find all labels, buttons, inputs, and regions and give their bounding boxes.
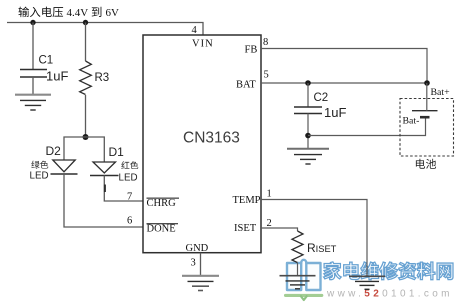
svg-text:8: 8	[263, 37, 268, 48]
svg-text:1: 1	[267, 188, 272, 199]
watermark: green base ribbon	[286, 294, 322, 297]
node: battery + junction	[424, 80, 430, 86]
wire: C1 top	[32, 23, 34, 70]
wire: D2 cathode to DONE	[64, 174, 143, 227]
svg-text:6: 6	[127, 216, 132, 227]
svg-text:LED: LED	[119, 173, 138, 184]
svg-text:5: 5	[264, 70, 269, 81]
net label: input voltage 4.4V to 6V	[18, 7, 119, 19]
svg-text:BAT: BAT	[236, 80, 256, 91]
wire: C2 bottom	[307, 114, 309, 149]
wire: C2 top	[307, 83, 309, 107]
wire: R3 top	[85, 23, 87, 62]
node: LED rail junction	[83, 134, 89, 140]
svg-text:1uF: 1uF	[324, 105, 346, 120]
resistor RISET	[292, 231, 337, 263]
wire: battery - return	[308, 118, 426, 136]
wire: LED top rail	[64, 137, 104, 162]
resistor R3	[80, 61, 110, 95]
svg-text:LED: LED	[30, 171, 49, 182]
svg-text:1uF: 1uF	[46, 69, 68, 84]
watermark: site name 家电维修资料网	[324, 262, 453, 280]
svg-text:DONE: DONE	[147, 224, 176, 235]
svg-text:TEMP: TEMP	[233, 195, 261, 206]
pin 5 BAT	[236, 70, 269, 91]
svg-text:RISET: RISET	[307, 241, 337, 255]
pin 3 GND	[186, 243, 209, 269]
svg-text:R3: R3	[95, 72, 110, 84]
LED D2 (green)	[30, 144, 78, 182]
node: C1 junction	[30, 20, 35, 25]
wire: D1 cathode to CHRG	[104, 176, 143, 202]
wire: FB to battery +	[261, 49, 427, 84]
IC U1 CN3163 body	[143, 35, 261, 253]
ground: under C1	[15, 95, 51, 110]
svg-text:C1: C1	[39, 55, 54, 67]
wire: input rail to pin 4	[7, 23, 203, 36]
svg-text:GND: GND	[186, 243, 209, 254]
svg-text:D1: D1	[109, 145, 125, 159]
node: C2/battery - junction	[305, 133, 311, 139]
pin 4 VIN	[192, 25, 214, 50]
pin 2 ISET	[234, 218, 272, 234]
svg-text:VIN: VIN	[192, 39, 214, 50]
svg-text:D2: D2	[46, 144, 62, 158]
wire: RISET to ground	[297, 263, 299, 276]
battery BT1: pack outline	[400, 99, 454, 169]
battery cell symbol	[412, 83, 438, 117]
svg-text:CHRG: CHRG	[147, 198, 177, 209]
ground: under IC GND	[182, 276, 219, 291]
pin 6 DONE	[127, 216, 178, 235]
ground: under RISET	[280, 276, 316, 289]
capacitor C1	[20, 55, 68, 84]
svg-text:7: 7	[127, 192, 132, 203]
ground: under C2	[287, 149, 329, 164]
wire: BAT rail	[261, 82, 427, 84]
svg-text:www.520101.com: www.520101.com	[326, 289, 453, 300]
wire: TEMP to ground	[261, 200, 367, 277]
svg-text:CN3163: CN3163	[183, 130, 240, 147]
wire: R3 bottom to LED rail	[85, 95, 87, 137]
pin 1 TEMP	[233, 188, 272, 206]
wire: GND pin to ground	[200, 253, 202, 276]
svg-text:ISET: ISET	[234, 223, 257, 234]
wire: ISET to RISET	[261, 228, 298, 231]
wire: C1 to ground	[32, 77, 34, 95]
svg-text:C2: C2	[314, 92, 329, 104]
svg-text:2: 2	[267, 218, 272, 229]
svg-text:3: 3	[191, 258, 196, 269]
ground: under TEMP wire	[349, 276, 385, 289]
svg-text:4.4V: 4.4V	[67, 7, 89, 19]
svg-text:4: 4	[192, 25, 198, 36]
svg-text:Bat+: Bat+	[431, 87, 451, 98]
capacitor C2	[294, 92, 346, 120]
LED D1 (red)	[90, 145, 138, 184]
svg-text:FB: FB	[245, 45, 258, 56]
svg-text:Bat-: Bat-	[403, 116, 420, 127]
svg-text:6V: 6V	[106, 7, 120, 19]
pin 8 FB	[245, 37, 269, 56]
watermark: open book logo	[287, 260, 321, 290]
pin 7 CHRG	[127, 192, 179, 210]
node: R3 junction	[83, 20, 88, 25]
node: C2 junction on BAT	[305, 80, 311, 86]
